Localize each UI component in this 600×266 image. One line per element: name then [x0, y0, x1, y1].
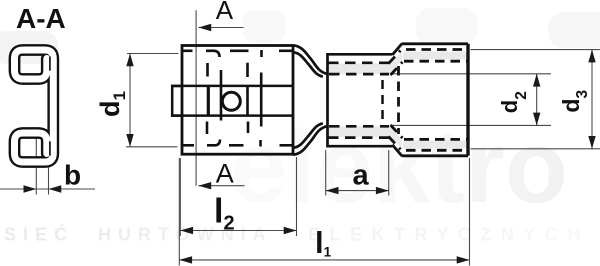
svg-text:A-A: A-A [16, 3, 66, 34]
svg-text:A: A [216, 159, 234, 189]
svg-text:elektro: elektro [230, 109, 568, 224]
svg-text:HURTOWNIA: HURTOWNIA [98, 225, 273, 245]
svg-text:A: A [216, 0, 234, 25]
svg-text:ELEKTRYCZNYCH: ELEKTRYCZNYCH [308, 225, 590, 245]
svg-text:SIEĆ: SIEĆ [4, 224, 74, 245]
svg-text:b: b [64, 159, 81, 190]
svg-text:a: a [353, 159, 370, 191]
